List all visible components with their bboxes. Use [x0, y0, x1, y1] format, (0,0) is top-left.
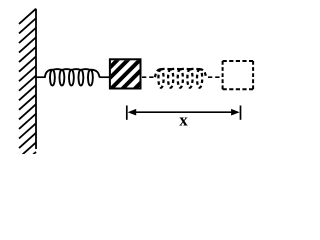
- svg-text:x: x: [179, 111, 188, 130]
